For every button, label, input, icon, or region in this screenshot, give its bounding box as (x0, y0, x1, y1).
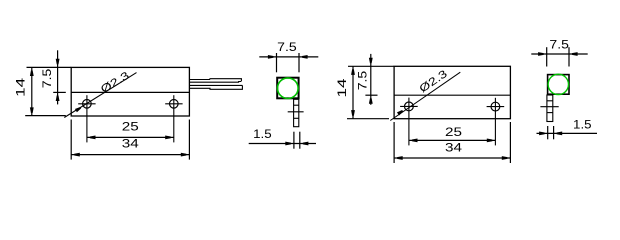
side view 1: stem rung 3 (294, 117, 299, 119)
side view 1: 1.5 dimension line (249, 143, 316, 145)
left view: wire 2 top edge (189, 84, 242, 86)
left view: 14 bottom extension line (25, 115, 66, 117)
right view: 14 dim arrow top (351, 69, 355, 75)
side view 2: 7.5 right extension line (568, 47, 570, 66)
left view: 34 right extension line (188, 120, 190, 160)
left view: 25 dim arrow right (165, 136, 171, 140)
svg-text:1.5: 1.5 (573, 117, 592, 131)
right view: 34 left extension line (393, 122, 395, 163)
right view: hole left centerline vertical + extension to 25 dim (408, 98, 410, 146)
side view 2: stem rung 3 (547, 112, 553, 114)
right view: leader line for hole diameter (390, 72, 460, 120)
side view 2: 7.5 arrow left (outside) (538, 52, 544, 56)
side view 1: 7.5 right extension line (298, 53, 300, 72)
side view 2: 7.5 arrow right (outside) (572, 52, 578, 56)
right view: 7.5 dim arrow top (outside) (369, 58, 373, 64)
left view: wire 1 bottom edge (189, 81, 241, 84)
left view: wire 2 bottom edge (189, 85, 242, 89)
svg-text:7.5: 7.5 (549, 38, 569, 52)
left view: leader line for hole diameter (64, 73, 136, 118)
left view: 25 dim arrow left (90, 136, 96, 140)
left view: 7.5 dim arrow bottom (outside) (56, 95, 60, 101)
svg-text:25: 25 (445, 125, 462, 139)
left view: 34 left extension line (70, 120, 72, 160)
left view: 25 dimension line (87, 136, 174, 138)
left view: hole left centerline horizontal (78, 103, 95, 105)
side view 2: green circle (548, 74, 568, 94)
svg-text:7.5: 7.5 (40, 68, 54, 88)
right view: 7.5 dimension line (370, 54, 372, 105)
left view: 14 top extension line (27, 66, 72, 68)
right view: sensor body outline (394, 66, 510, 118)
left view: 14 dimension line (31, 67, 33, 116)
right view: 25 dim arrow right (487, 139, 493, 143)
left view: body seam line (71, 91, 189, 93)
left view: wire 1 top edge (210, 79, 241, 81)
side view 1: wire stem outline (294, 99, 299, 126)
left view: 34 dim arrow left (74, 153, 80, 157)
right view: mounting hole left circle (405, 102, 414, 111)
left view: 34 dim arrow right (181, 153, 187, 157)
side view 1: 7.5 left extension line (276, 53, 278, 72)
side view 1: stem rung 1 (294, 104, 299, 106)
left view: leader arrow at hole (75, 107, 81, 112)
side view 2: 1.5 right extension line (553, 126, 555, 139)
right view: 34 dim arrow left (397, 156, 403, 160)
right view: 14 dim arrow bottom (351, 110, 355, 116)
side view 1: green circle (278, 78, 299, 99)
side view 2: 1.5 left extension line (547, 126, 549, 139)
side view 1: 1.5 left extension line (293, 132, 295, 149)
svg-text:25: 25 (122, 120, 139, 134)
right view: leader arrow at hole (397, 110, 403, 115)
side view 2: stem rung 1 (547, 100, 553, 102)
side view 1: stem rung 2 wide crossbar (288, 111, 304, 113)
side view 1: 1.5 right extension line (299, 132, 301, 149)
side view 2: stem rung 2 wide crossbar (540, 106, 558, 108)
side view 2: 7.5 left extension line (546, 47, 548, 66)
right view: body seam line (394, 94, 510, 96)
left view: 14 dim arrow top (30, 70, 34, 76)
left view: wire bundle upper line at body (189, 79, 210, 81)
svg-text:14: 14 (335, 78, 349, 97)
svg-text:7.5: 7.5 (277, 40, 297, 54)
left view: 34 dimension line (71, 154, 189, 156)
right view: hole right centerline horizontal (487, 106, 505, 108)
side view 2: wire stem outline (547, 95, 553, 122)
right view: 25 dim arrow left (412, 139, 418, 143)
left view: 14 dim arrow bottom (30, 107, 34, 113)
right view: 34 dimension line (394, 157, 510, 159)
svg-text:14: 14 (14, 77, 28, 96)
right view: 14 bottom extension line (347, 118, 389, 120)
side view 2: 7.5 dimension line (531, 53, 587, 55)
left view: 7.5 seam extension line (53, 91, 66, 93)
svg-text:1.5: 1.5 (253, 127, 272, 141)
right view: 34 right extension line (509, 122, 511, 163)
side view 2: cap square (548, 75, 569, 95)
side view 1: 1.5 arrow left (outside) (285, 142, 291, 146)
left view: 7.5 dim arrow top (outside) (56, 59, 60, 65)
svg-text:34: 34 (122, 137, 139, 151)
side view 1: 7.5 arrow right (outside) (302, 55, 308, 59)
left view: mounting hole left circle (83, 100, 92, 109)
right view: hole left centerline horizontal (400, 105, 418, 107)
left view: hole right centerline horizontal (165, 103, 182, 105)
right view: 25 dimension line (409, 139, 496, 141)
side view 1: 1.5 arrow right (outside) (303, 142, 309, 146)
right view: mounting hole right circle (491, 102, 500, 111)
right view: 34 dim arrow right (502, 156, 508, 160)
left view: sensor body outline (71, 67, 189, 116)
left view: mounting hole right circle (170, 100, 179, 109)
right view: 7.5 seam extension line (365, 94, 377, 96)
side view 2: 1.5 arrow right (outside) (557, 132, 563, 136)
left view: 7.5 dimension line (57, 50, 59, 104)
side view 2: 1.5 arrow left (outside) (539, 132, 545, 136)
side view 2: 1.5 dimension line (537, 132, 598, 134)
side view 1: cap square (277, 78, 298, 99)
side view 1: 7.5 arrow left (outside) (268, 55, 274, 59)
side view 1: 7.5 dimension line (259, 56, 318, 58)
right view: 7.5 dim arrow bottom (outside) (369, 98, 373, 104)
svg-text:7.5: 7.5 (356, 70, 370, 90)
left view: hole left centerline vertical + extension to 25 dim (86, 95, 88, 142)
right view: 14 dimension line (352, 66, 354, 118)
left view: hole right centerline vertical + extension to 25 dim (173, 95, 175, 142)
right view: hole right centerline vertical + extension to 25 dim (494, 98, 496, 146)
right view: 14 top extension line (348, 65, 394, 67)
svg-text:34: 34 (445, 140, 462, 154)
